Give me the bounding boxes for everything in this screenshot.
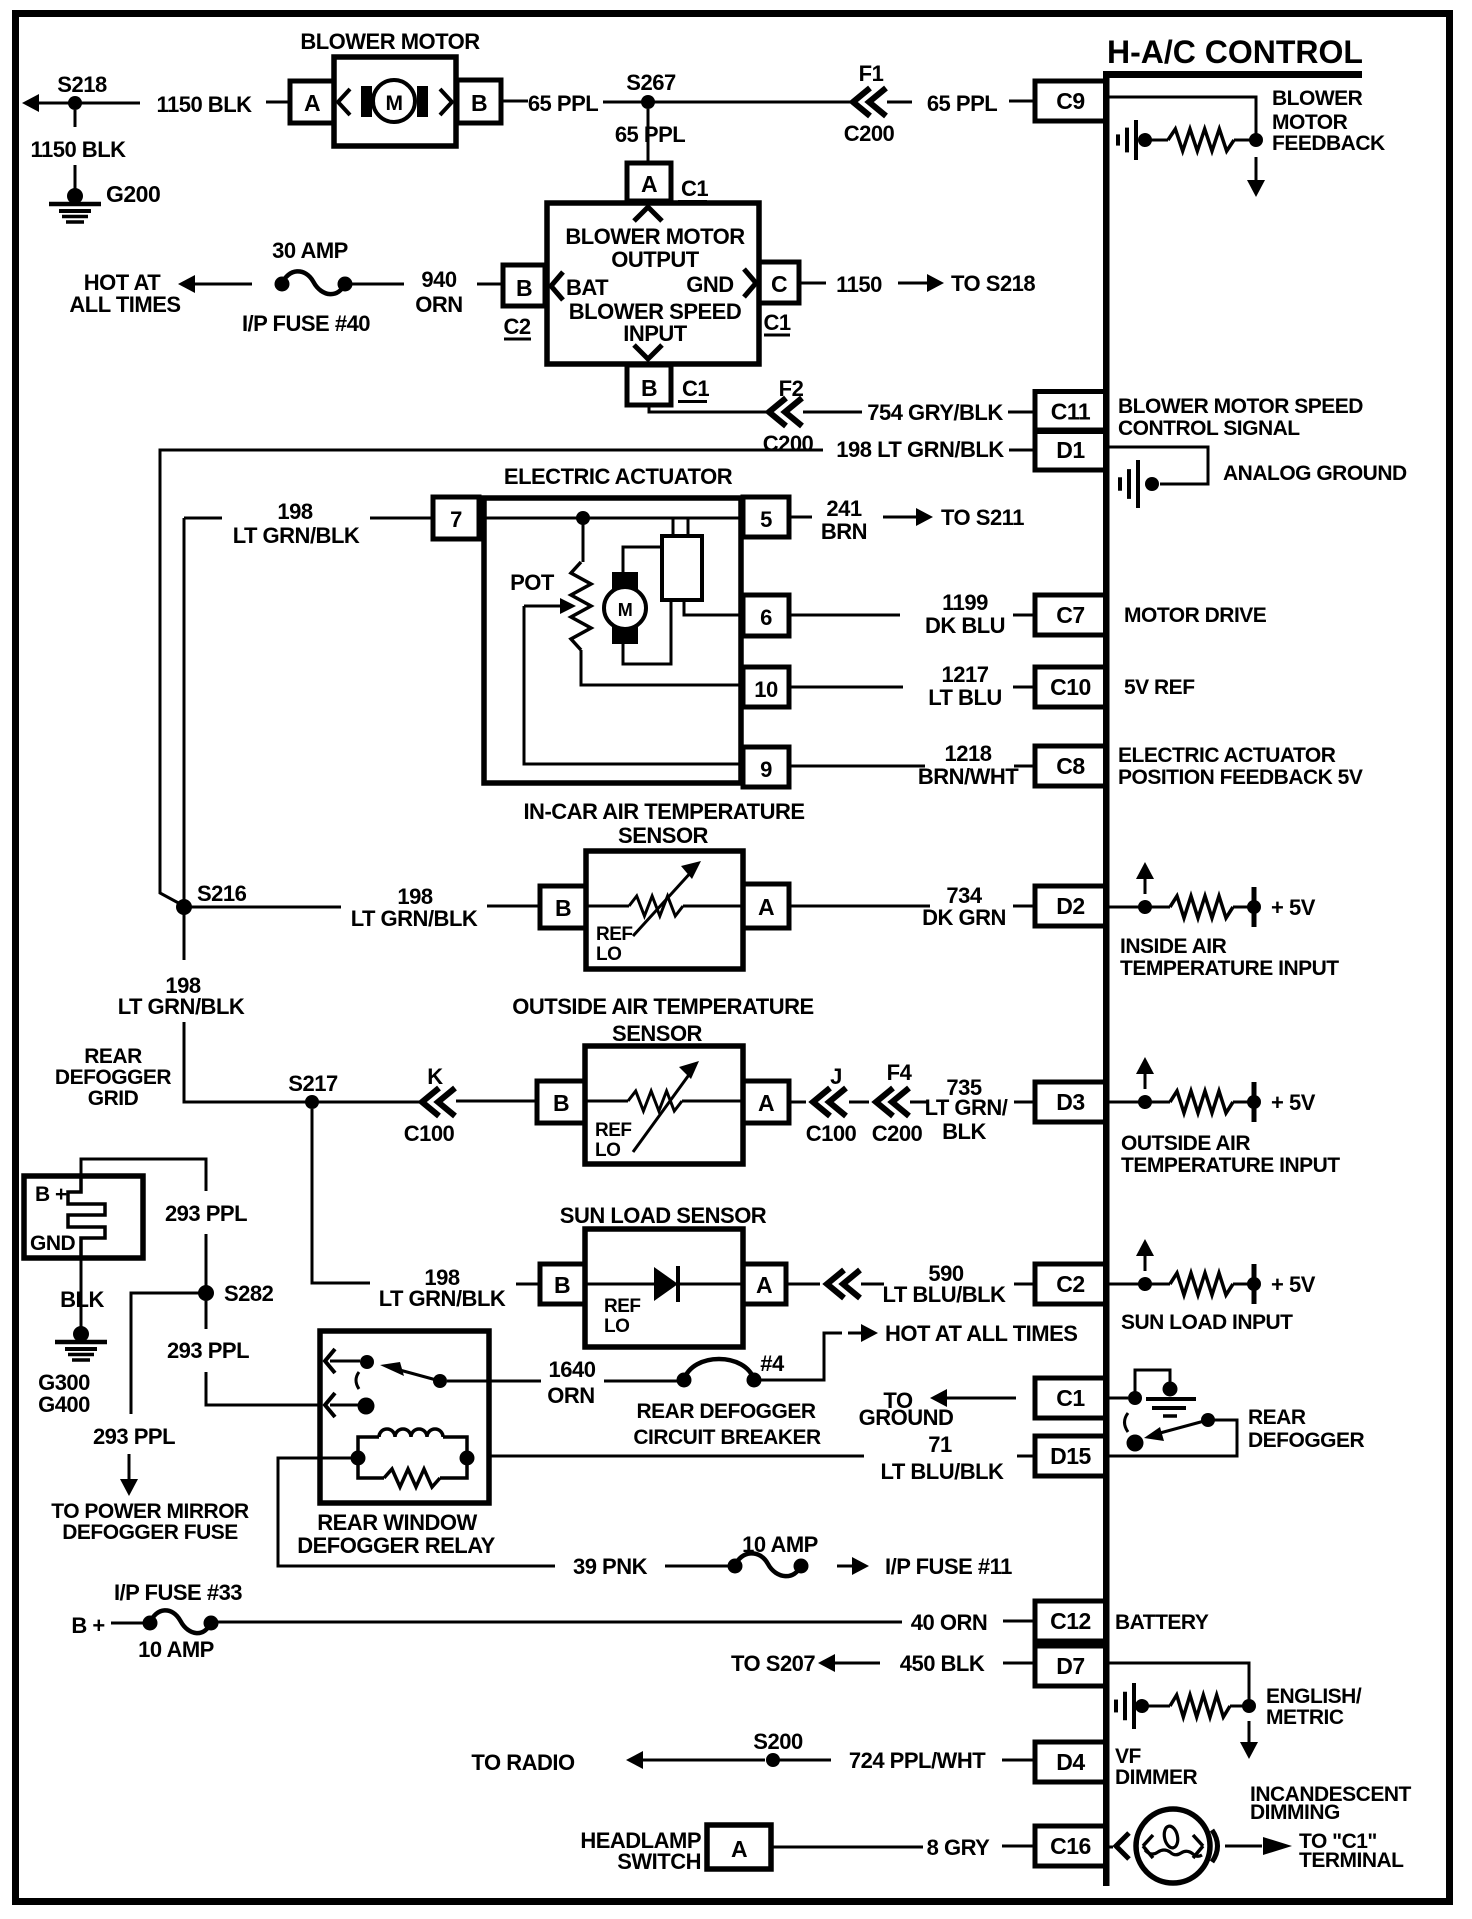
svg-text:450 BLK: 450 BLK xyxy=(900,1651,985,1676)
connector D15 xyxy=(1035,1436,1106,1476)
svg-text:B: B xyxy=(555,895,571,921)
svg-text:LT GRN/: LT GRN/ xyxy=(925,1095,1008,1120)
svg-text:C: C xyxy=(771,271,787,297)
svg-text:A: A xyxy=(304,90,320,116)
svg-text:S267: S267 xyxy=(626,70,676,95)
grid element xyxy=(68,1176,105,1258)
connector A in-car sensor xyxy=(743,884,789,928)
wire 71 LT BLU/BLK xyxy=(489,1455,864,1458)
connector A outside sensor xyxy=(743,1081,789,1123)
outside sensor box xyxy=(585,1046,743,1164)
wire blower feedback xyxy=(1109,97,1256,140)
svg-text:J: J xyxy=(830,1064,842,1089)
svg-text:A: A xyxy=(756,1272,772,1298)
wire 65 PPL to C9 xyxy=(887,101,912,104)
svg-text:TEMPERATURE INPUT: TEMPERATURE INPUT xyxy=(1120,957,1339,980)
chevron output top xyxy=(634,207,662,221)
pin 7 xyxy=(433,497,479,539)
svg-text:65 PPL: 65 PPL xyxy=(528,91,598,116)
svg-text:ELECTRIC ACTUATOR: ELECTRIC ACTUATOR xyxy=(504,464,733,489)
svg-text:LT BLU: LT BLU xyxy=(928,685,1002,710)
svg-text:VF: VF xyxy=(1115,1745,1142,1768)
svg-text:724 PPL/WHT: 724 PPL/WHT xyxy=(849,1748,986,1773)
connector D4 xyxy=(1035,1742,1106,1782)
wire 65 PPL down to A C1 xyxy=(647,109,650,163)
svg-text:CONTROL SIGNAL: CONTROL SIGNAL xyxy=(1118,417,1300,440)
svg-text:OUTPUT: OUTPUT xyxy=(611,247,700,272)
ground G200 xyxy=(67,188,83,204)
svg-text:S218: S218 xyxy=(57,72,107,97)
relay upper contact xyxy=(325,1349,335,1373)
svg-text:65 PPL: 65 PPL xyxy=(927,91,997,116)
svg-text:5V REF: 5V REF xyxy=(1124,676,1195,699)
svg-text:F1: F1 xyxy=(859,61,884,86)
svg-text:C1: C1 xyxy=(682,376,709,401)
electric actuator box xyxy=(484,498,741,783)
wire B+ up and over to S282 xyxy=(81,1159,206,1191)
svg-text:TO S207: TO S207 xyxy=(731,1651,815,1676)
svg-text:BRN/WHT: BRN/WHT xyxy=(918,764,1019,789)
svg-text:TO POWER MIRROR: TO POWER MIRROR xyxy=(51,1500,249,1523)
svg-text:C1: C1 xyxy=(1056,1385,1085,1411)
svg-text:D15: D15 xyxy=(1050,1443,1091,1469)
wire 293 PPL to power mirror fuse xyxy=(131,1293,199,1414)
svg-text:C2: C2 xyxy=(503,314,530,339)
svg-text:DEFOGGER FUSE: DEFOGGER FUSE xyxy=(62,1521,238,1544)
connector A headlamp switch xyxy=(707,1825,771,1869)
svg-text:C12: C12 xyxy=(1050,1608,1091,1634)
wire 1150 to S218 xyxy=(799,282,826,285)
svg-text:G400: G400 xyxy=(38,1392,90,1417)
svg-text:LO: LO xyxy=(596,944,621,965)
relay lower contact xyxy=(325,1393,335,1417)
connector C16 xyxy=(1035,1826,1106,1866)
svg-text:BLOWER MOTOR SPEED: BLOWER MOTOR SPEED xyxy=(1118,395,1363,418)
connector B outside sensor xyxy=(537,1081,585,1123)
svg-text:LT BLU/BLK: LT BLU/BLK xyxy=(881,1459,1005,1484)
svg-text:OUTSIDE AIR: OUTSIDE AIR xyxy=(1121,1132,1250,1155)
svg-text:SENSOR: SENSOR xyxy=(618,823,709,848)
svg-text:ORN: ORN xyxy=(415,292,462,317)
svg-text:B: B xyxy=(553,1090,569,1116)
pin 5 xyxy=(743,497,789,537)
rear defogger grid box xyxy=(24,1176,143,1258)
svg-text:DEFOGGER: DEFOGGER xyxy=(55,1066,172,1089)
svg-text:TERMINAL: TERMINAL xyxy=(1299,1849,1404,1872)
+5V circuit inside C2 xyxy=(1109,1283,1142,1286)
connector C12 xyxy=(1035,1601,1106,1641)
svg-text:ANALOG GROUND: ANALOG GROUND xyxy=(1223,462,1407,485)
svg-text:940: 940 xyxy=(421,267,456,292)
svg-text:ALL TIMES: ALL TIMES xyxy=(69,292,180,317)
svg-text:C200: C200 xyxy=(844,121,895,146)
connector C11 xyxy=(1035,392,1106,432)
svg-text:BLOWER: BLOWER xyxy=(1272,87,1363,110)
svg-text:I/P FUSE #33: I/P FUSE #33 xyxy=(114,1580,242,1605)
wire 590 LT BLU/BLK xyxy=(786,1283,820,1286)
connector B C1 bottom xyxy=(627,365,671,405)
wire 8 GRY xyxy=(771,1846,923,1849)
wire pin7 to pin5 internal xyxy=(479,517,743,520)
connector B blower motor xyxy=(457,80,501,123)
svg-text:+ 5V: + 5V xyxy=(1271,1090,1316,1115)
svg-text:DIMMER: DIMMER xyxy=(1115,1766,1197,1789)
svg-text:TO RADIO: TO RADIO xyxy=(471,1750,575,1775)
wire 735 LT GRN/BLK xyxy=(789,1101,806,1104)
svg-text:1217: 1217 xyxy=(942,662,989,687)
chevron input bottom xyxy=(634,345,662,359)
connector A blower motor xyxy=(290,81,334,123)
analog ground circuit xyxy=(1109,447,1208,484)
connector A sun sensor xyxy=(743,1264,786,1304)
svg-text:40 ORN: 40 ORN xyxy=(911,1610,987,1635)
svg-text:C10: C10 xyxy=(1050,674,1091,700)
rear defogger switch circuit xyxy=(1109,1397,1128,1400)
svg-text:B: B xyxy=(641,375,657,401)
svg-text:M: M xyxy=(618,600,633,620)
wire 198 to in-car sensor B xyxy=(191,906,341,909)
svg-text:6: 6 xyxy=(760,605,772,630)
svg-text:METRIC: METRIC xyxy=(1266,1706,1344,1729)
svg-text:MOTOR DRIVE: MOTOR DRIVE xyxy=(1124,604,1267,627)
svg-text:LO: LO xyxy=(604,1316,629,1337)
svg-text:S216: S216 xyxy=(197,881,247,906)
svg-text:ENGLISH/: ENGLISH/ xyxy=(1266,1685,1362,1708)
H-A/C CONTROL module line xyxy=(1104,71,1362,78)
svg-text:BLOWER MOTOR: BLOWER MOTOR xyxy=(300,29,480,54)
svg-text:TO S218: TO S218 xyxy=(951,271,1035,296)
svg-text:ORN: ORN xyxy=(547,1383,594,1408)
arrow to C1 terminal xyxy=(1225,1845,1262,1848)
svg-text:B +: B + xyxy=(71,1613,104,1638)
svg-text:241: 241 xyxy=(826,496,861,521)
connector B in-car sensor xyxy=(540,886,586,928)
wire 940 ORN xyxy=(352,283,404,286)
svg-text:REF: REF xyxy=(596,924,633,945)
svg-text:M: M xyxy=(386,92,403,115)
connector C1 module xyxy=(1035,1378,1106,1418)
svg-text:A: A xyxy=(758,894,774,920)
svg-text:SUN LOAD INPUT: SUN LOAD INPUT xyxy=(1121,1311,1293,1334)
wire 1217 LT BLU xyxy=(789,686,903,689)
svg-text:BLOWER MOTOR: BLOWER MOTOR xyxy=(565,224,745,249)
wire 198 vertical pin7 to S216 xyxy=(183,518,186,960)
svg-text:8 GRY: 8 GRY xyxy=(927,1835,991,1860)
connector C2 module xyxy=(1035,1264,1106,1304)
svg-text:293 PPL: 293 PPL xyxy=(165,1201,247,1226)
svg-text:198: 198 xyxy=(277,499,312,524)
svg-text:C9: C9 xyxy=(1056,88,1084,114)
svg-text:S200: S200 xyxy=(753,1729,803,1754)
connector C7 xyxy=(1035,595,1106,635)
svg-text:1150: 1150 xyxy=(836,272,882,297)
svg-text:C8: C8 xyxy=(1056,753,1085,779)
pin 9 xyxy=(743,747,789,787)
wire 40 ORN xyxy=(218,1621,902,1624)
svg-text:B +: B + xyxy=(35,1183,67,1206)
node S282 splice xyxy=(198,1285,214,1301)
arrow to hot at all times xyxy=(192,283,252,286)
pot wiper arrow xyxy=(524,605,560,608)
wire 198 to sun sensor B xyxy=(312,1109,370,1283)
pot resistor xyxy=(582,524,585,562)
svg-text:10 AMP: 10 AMP xyxy=(138,1637,214,1662)
pin 6 xyxy=(743,595,789,636)
sun load sensor box xyxy=(585,1229,743,1347)
svg-text:D4: D4 xyxy=(1056,1749,1085,1775)
svg-text:10: 10 xyxy=(754,677,778,702)
svg-text:754 GRY/BLK: 754 GRY/BLK xyxy=(867,400,1003,425)
svg-text:B: B xyxy=(516,275,532,301)
svg-text:FEEDBACK: FEEDBACK xyxy=(1272,132,1385,155)
connector D7 xyxy=(1035,1646,1106,1686)
wire 65 PPL from blower B xyxy=(501,100,528,103)
wire 293 PPL S282 down to relay xyxy=(205,1301,208,1329)
svg-text:LT BLU/BLK: LT BLU/BLK xyxy=(883,1282,1007,1307)
svg-text:71: 71 xyxy=(928,1432,952,1457)
svg-text:INPUT: INPUT xyxy=(623,321,688,346)
wire 1218 BRN/WHT xyxy=(789,765,925,768)
svg-text:S217: S217 xyxy=(288,1071,338,1096)
connector C9 xyxy=(1035,81,1106,121)
wire GND to G300 G400 xyxy=(80,1258,83,1330)
svg-text:POT: POT xyxy=(510,570,555,595)
connector B C2 left xyxy=(503,265,545,306)
svg-text:293 PPL: 293 PPL xyxy=(167,1338,249,1363)
arrow down feedback xyxy=(1255,157,1258,183)
incandescent lamp xyxy=(1109,1846,1113,1849)
svg-text:REAR DEFOGGER: REAR DEFOGGER xyxy=(636,1400,815,1423)
connector C10 xyxy=(1035,667,1106,707)
svg-text:DK GRN: DK GRN xyxy=(922,905,1006,930)
svg-text:C1: C1 xyxy=(763,310,790,335)
svg-text:F4: F4 xyxy=(887,1060,913,1085)
svg-text:5: 5 xyxy=(760,507,772,532)
svg-text:DK BLU: DK BLU xyxy=(925,613,1005,638)
svg-text:ELECTRIC ACTUATOR: ELECTRIC ACTUATOR xyxy=(1118,744,1336,767)
svg-text:REF: REF xyxy=(604,1296,641,1317)
motor M actuator xyxy=(604,587,646,629)
svg-text:39 PNK: 39 PNK xyxy=(573,1554,648,1579)
resistor english metric xyxy=(1170,1695,1230,1717)
ground analog feedback xyxy=(1134,120,1138,160)
svg-text:198 LT GRN/BLK: 198 LT GRN/BLK xyxy=(836,437,1004,462)
svg-text:LO: LO xyxy=(595,1140,620,1161)
svg-text:B: B xyxy=(554,1272,570,1298)
connector C8 xyxy=(1035,746,1106,786)
svg-text:293 PPL: 293 PPL xyxy=(93,1424,175,1449)
connector A C1 top xyxy=(627,163,671,201)
thermistor in-car xyxy=(586,905,629,908)
svg-text:9: 9 xyxy=(760,757,772,782)
svg-text:S282: S282 xyxy=(224,1281,274,1306)
relay switch arm xyxy=(447,1380,489,1383)
svg-text:SENSOR: SENSOR xyxy=(612,1021,703,1046)
svg-text:C100: C100 xyxy=(404,1121,455,1146)
svg-text:C1: C1 xyxy=(681,176,708,201)
svg-text:LT GRN/BLK: LT GRN/BLK xyxy=(351,906,478,931)
svg-text:D3: D3 xyxy=(1056,1089,1084,1115)
svg-text:B: B xyxy=(471,90,487,116)
feedback element rect xyxy=(662,536,702,600)
chevron BAT xyxy=(551,272,563,300)
relay mech link xyxy=(356,1372,359,1389)
connector D1 xyxy=(1035,430,1106,470)
svg-text:SWITCH: SWITCH xyxy=(617,1849,701,1874)
+5V circuit inside D2 xyxy=(1109,906,1142,909)
svg-text:REAR WINDOW: REAR WINDOW xyxy=(317,1510,477,1535)
svg-text:REAR: REAR xyxy=(84,1045,142,1068)
svg-text:#4: #4 xyxy=(760,1351,785,1376)
connector D2 xyxy=(1035,886,1106,926)
wire 734 DK GRN xyxy=(789,905,930,908)
english/metric circuit xyxy=(1109,1663,1249,1706)
svg-text:C2: C2 xyxy=(1056,1271,1084,1297)
svg-text:BLK: BLK xyxy=(60,1287,104,1312)
svg-text:A: A xyxy=(731,1836,747,1862)
blower control module box xyxy=(547,203,759,364)
svg-text:C11: C11 xyxy=(1051,399,1091,425)
svg-text:1218: 1218 xyxy=(945,741,992,766)
svg-text:1150 BLK: 1150 BLK xyxy=(30,137,126,162)
svg-text:BATTERY: BATTERY xyxy=(1115,1611,1209,1634)
wire to hot at all times xyxy=(754,1333,842,1380)
in-car sensor box xyxy=(586,851,743,969)
wire 198 LT GRN/BLK to pin 7 xyxy=(184,517,222,520)
svg-text:G200: G200 xyxy=(106,181,160,207)
svg-text:BAT: BAT xyxy=(566,275,609,300)
svg-text:LT GRN/BLK: LT GRN/BLK xyxy=(379,1286,506,1311)
svg-text:1150 BLK: 1150 BLK xyxy=(156,92,252,117)
wire 241 BRN to S211 xyxy=(789,516,812,519)
circuit breaker #4 xyxy=(684,1359,754,1380)
svg-text:65 PPL: 65 PPL xyxy=(615,122,685,147)
svg-text:D1: D1 xyxy=(1056,437,1085,463)
chevron GND xyxy=(744,269,756,297)
connector D3 xyxy=(1035,1082,1106,1122)
wire 1199 DK BLU xyxy=(789,614,900,617)
svg-text:GRID: GRID xyxy=(88,1087,139,1110)
svg-text:C100: C100 xyxy=(806,1121,857,1146)
svg-text:IN-CAR AIR TEMPERATURE: IN-CAR AIR TEMPERATURE xyxy=(523,799,804,824)
wire 1640 ORN xyxy=(489,1380,541,1383)
svg-text:POSITION FEEDBACK 5V: POSITION FEEDBACK 5V xyxy=(1118,766,1363,789)
relay coil and resistor xyxy=(351,1451,366,1466)
pin 10 xyxy=(743,667,789,707)
svg-text:D7: D7 xyxy=(1056,1653,1084,1679)
svg-text:GND: GND xyxy=(30,1232,76,1255)
svg-text:D2: D2 xyxy=(1056,893,1084,919)
svg-text:C200: C200 xyxy=(763,431,814,456)
motor M blower xyxy=(373,80,415,122)
svg-text:H-A/C CONTROL: H-A/C CONTROL xyxy=(1107,34,1363,70)
svg-text:I/P FUSE #40: I/P FUSE #40 xyxy=(242,311,370,336)
svg-text:TO S211: TO S211 xyxy=(941,505,1024,530)
svg-text:K: K xyxy=(427,1064,443,1089)
wire 754 GRY/BLK xyxy=(649,405,769,412)
svg-text:GND: GND xyxy=(686,272,733,297)
svg-text:HOT AT ALL TIMES: HOT AT ALL TIMES xyxy=(885,1321,1077,1346)
wire 1150 BLK down to G200 xyxy=(74,110,77,127)
svg-text:GROUND: GROUND xyxy=(859,1405,954,1430)
svg-text:7: 7 xyxy=(450,507,462,532)
blower motor case xyxy=(334,57,456,146)
photodiode sun sensor xyxy=(585,1283,654,1286)
svg-text:DEFOGGER: DEFOGGER xyxy=(1248,1429,1365,1452)
svg-text:+ 5V: + 5V xyxy=(1271,895,1316,920)
wire 198 LT GRN/BLK to D1 xyxy=(160,450,823,906)
svg-text:C200: C200 xyxy=(872,1121,923,1146)
svg-text:BRN: BRN xyxy=(821,519,867,544)
svg-text:DIMMING: DIMMING xyxy=(1250,1801,1340,1824)
svg-text:SUN LOAD SENSOR: SUN LOAD SENSOR xyxy=(560,1203,767,1228)
wire 198 to S217 xyxy=(184,1098,312,1102)
svg-text:1199: 1199 xyxy=(942,590,988,615)
connector B sun sensor xyxy=(540,1264,585,1304)
svg-text:DEFOGGER RELAY: DEFOGGER RELAY xyxy=(297,1533,495,1558)
rear window defogger relay box xyxy=(320,1331,489,1503)
svg-text:INSIDE AIR: INSIDE AIR xyxy=(1120,935,1227,958)
svg-text:CIRCUIT BREAKER: CIRCUIT BREAKER xyxy=(633,1426,821,1449)
thermistor outside xyxy=(585,1100,628,1103)
svg-text:C7: C7 xyxy=(1056,602,1084,628)
connector C C1 right xyxy=(759,262,799,303)
+5V circuit inside D3 xyxy=(1109,1101,1142,1104)
svg-text:REAR: REAR xyxy=(1248,1406,1306,1429)
svg-text:BLK: BLK xyxy=(942,1119,986,1144)
svg-text:REF: REF xyxy=(595,1120,632,1141)
svg-text:OUTSIDE AIR TEMPERATURE: OUTSIDE AIR TEMPERATURE xyxy=(512,994,813,1019)
svg-text:30 AMP: 30 AMP xyxy=(272,238,348,263)
svg-text:C16: C16 xyxy=(1050,1833,1091,1859)
svg-text:LT GRN/BLK: LT GRN/BLK xyxy=(233,523,360,548)
svg-text:1640: 1640 xyxy=(549,1357,596,1382)
svg-text:A: A xyxy=(641,171,657,197)
svg-text:+ 5V: + 5V xyxy=(1271,1272,1316,1297)
wire 39 PNK xyxy=(278,1458,555,1566)
resistor blower feedback xyxy=(1168,129,1234,151)
svg-text:TEMPERATURE INPUT: TEMPERATURE INPUT xyxy=(1121,1154,1340,1177)
svg-text:I/P FUSE #11: I/P FUSE #11 xyxy=(885,1554,1012,1579)
ground G300 G400 xyxy=(73,1326,89,1342)
svg-text:LT GRN/BLK: LT GRN/BLK xyxy=(118,994,245,1019)
svg-text:MOTOR: MOTOR xyxy=(1272,111,1348,134)
svg-text:A: A xyxy=(758,1090,774,1116)
